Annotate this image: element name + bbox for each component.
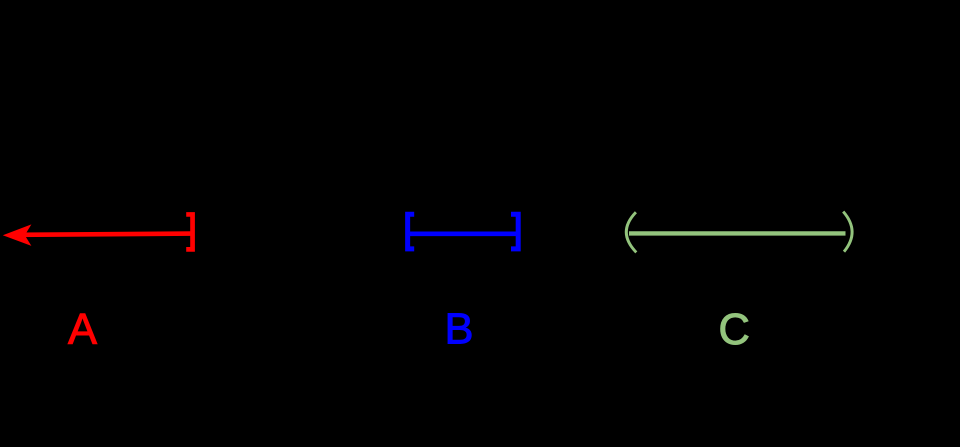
svg-text:C: C [719, 306, 750, 354]
ray A closed endpoint bracket ] [186, 214, 192, 249]
ray A shaft [18, 234, 192, 235]
segment B line [409, 231, 517, 236]
svg-text:B: B [445, 306, 474, 354]
segment C line [629, 231, 846, 235]
segment B left bracket [ [408, 214, 415, 249]
svg-text:A: A [68, 306, 97, 354]
segment C open endpoint parenthesis ) [843, 212, 852, 252]
ray A arrowhead [3, 224, 32, 246]
segment B right bracket ] [511, 214, 518, 249]
segment C open endpoint parenthesis ( [626, 212, 636, 252]
